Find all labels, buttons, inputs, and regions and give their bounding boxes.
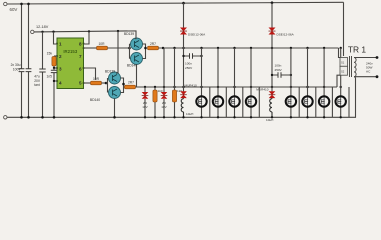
wire 10R to bases lower [102, 82, 107, 84]
wire bulk cap column 1 [21, 4, 23, 117]
terminal 12-18V input [31, 30, 34, 33]
svg-text:S1: S1 [341, 61, 345, 65]
winding secondary [354, 58, 356, 77]
resistor R4 10R [91, 81, 102, 85]
wire S2 bottom to LO rail [337, 75, 340, 87]
node snubber cap 2 left [271, 74, 273, 76]
wire M7 source extra [331, 87, 333, 117]
node emitter junction [144, 47, 147, 50]
resistor R5 2R7 [125, 85, 136, 89]
transistor M2 drain-source column [217, 48, 219, 117]
wire gate rail LO [136, 86, 338, 88]
svg-text:3: 3 [59, 67, 62, 72]
wire clamp column 1 [183, 3, 185, 99]
wire M4 source extra [258, 87, 260, 117]
resistor R2 10R [97, 46, 108, 50]
svg-text:BD140: BD140 [127, 64, 137, 68]
diode D2 MUR410 [180, 91, 187, 98]
transistor Q1 BD139 [131, 38, 143, 50]
svg-text:BD140: BD140 [90, 98, 100, 102]
resistor R1 15k [53, 56, 55, 68]
wire zener column Z1 [144, 87, 146, 117]
terminal ground [4, 116, 7, 119]
svg-text:5: 5 [79, 81, 82, 86]
wire pin 4 ground drop [54, 73, 57, 118]
terminal 60V input [4, 2, 7, 5]
wire Q3 collector from 12V rail [116, 31, 118, 73]
svg-text:2: 2 [59, 54, 62, 59]
wire 10R to bases [108, 47, 130, 49]
wire zener column Z2 from HO rail [163, 48, 165, 117]
svg-text:4: 4 [59, 81, 62, 86]
transistor Q4 BD140 [109, 87, 121, 99]
wire base bar Q1 Q2 [130, 44, 132, 59]
winding S1 [340, 58, 348, 67]
transistor M6 drain-source column [307, 48, 309, 117]
diode Z1 ZD 10V [142, 92, 149, 99]
transistor M4 can [246, 96, 256, 106]
node RT-CT junction [53, 67, 55, 69]
svg-text:tant: tant [34, 83, 40, 87]
svg-text:AC: AC [366, 70, 371, 74]
diode Z2 ZD 10V [161, 92, 168, 99]
capacitor C6 100n 250V snubber [272, 74, 291, 76]
node pin4 junction [53, 80, 55, 82]
wire HO rail to S1 top [339, 48, 341, 58]
wire Q1 collector from 12V rail [135, 38, 137, 40]
wire M2 source extra [225, 87, 227, 117]
capacitor C5 100n 250V snubber [184, 55, 202, 57]
core [350, 56, 352, 77]
transistor M1 drain-source column [201, 48, 203, 117]
junction dots 12V rail [41, 30, 119, 33]
svg-text:S2: S2 [341, 69, 345, 73]
wire M5 source extra [298, 87, 300, 117]
svg-text:15k: 15k [47, 52, 53, 56]
svg-text:DSEI12-06A: DSEI12-06A [277, 32, 295, 36]
svg-text:1: 1 [59, 42, 62, 47]
diode D3 DSEI12-06A [269, 28, 276, 35]
svg-text:7: 7 [79, 54, 82, 59]
resistor R7 1k0 [172, 90, 176, 102]
wire bulk cap column 2 [28, 4, 30, 117]
transistor M1 can [196, 96, 206, 106]
wire emitters Q3 Q4 join [121, 78, 124, 93]
wire pin 2 stub [54, 55, 57, 57]
svg-text:6: 6 [79, 67, 82, 72]
wire emitter to 2R7 lower [124, 86, 125, 88]
transistor Q2 BD140 [131, 53, 143, 65]
svg-text:8: 8 [79, 42, 82, 47]
junction dots HO rail [162, 47, 342, 49]
svg-text:250V: 250V [275, 68, 283, 72]
wire pin 1 to 12V rail [54, 32, 58, 44]
wire 12V rail [34, 31, 136, 39]
wire pin 6 VS [84, 68, 96, 80]
inductor L1 10uH [181, 99, 183, 118]
terminal secondary bottom [376, 75, 379, 78]
svg-text:250V: 250V [185, 66, 193, 70]
svg-text:BD139: BD139 [105, 69, 115, 73]
svg-text:MUR410: MUR410 [185, 83, 197, 87]
wire ground bus [7, 78, 356, 118]
wire Q4 collector to ground [114, 99, 116, 118]
transistor M4 drain-source column [250, 48, 252, 117]
transistor M5 drain-source column [290, 48, 292, 117]
resistor R3 2R7 [148, 46, 159, 50]
svg-text:TR 1: TR 1 [348, 44, 366, 54]
resistor R6 1k0 [153, 90, 157, 102]
node base junction Q1 Q2 [128, 47, 131, 50]
transistor M8 can [336, 96, 346, 106]
junction dots ground bus [20, 116, 342, 119]
svg-text:DSEI12-06A: DSEI12-06A [188, 32, 206, 36]
node emitter junction lower [122, 83, 125, 86]
transistor M3 can [229, 96, 239, 106]
svg-text:100V: 100V [13, 67, 22, 71]
wire pin 3 stub [54, 67, 57, 69]
svg-text:10V: 10V [142, 105, 148, 109]
wire resistor column R7 from HO rail [174, 48, 176, 117]
diode D4 MUR410 [269, 91, 276, 98]
node snubber cap right [200, 55, 202, 57]
wire pin 8 bootstrap stub [84, 31, 90, 44]
transistor M6 can [302, 96, 312, 106]
op-amp U1 IR2153 body [57, 38, 84, 89]
svg-text:10uH: 10uH [266, 118, 273, 122]
wire M3 source extra [242, 87, 244, 117]
wire 60V bus drop to primary [343, 2, 345, 56]
capacitor C4 CT 1n5 [53, 68, 55, 80]
svg-text:2R7: 2R7 [150, 42, 156, 46]
svg-text:60V: 60V [10, 7, 18, 12]
wire clamp column 2 [271, 3, 273, 99]
junction dots top bus [20, 1, 273, 5]
wire secondary top lead [354, 57, 377, 59]
svg-text:10R: 10R [93, 77, 100, 81]
transistor M7 drain-source column [323, 48, 325, 117]
inductor L2 10uH [270, 99, 272, 118]
wire pin 5 to 10R [84, 82, 91, 84]
capacitor bulk C1 plates [19, 69, 25, 72]
svg-text:1n5: 1n5 [46, 75, 52, 79]
svg-text:10V: 10V [161, 105, 167, 109]
wire pin 7 to 10R [84, 47, 97, 49]
transistor M7 can [319, 96, 329, 106]
transistor M5 can [286, 96, 296, 106]
wire top 60V bus [7, 2, 344, 4]
transistor M2 can [213, 96, 223, 106]
transistor M8 drain-source column [340, 48, 342, 117]
svg-text:12-18V: 12-18V [36, 25, 49, 29]
capacitor bulk C2 plates [26, 69, 32, 72]
wire secondary bottom lead [354, 76, 377, 79]
pin number labels U1 [59, 42, 82, 86]
diode D1 DSEI12-06A [180, 28, 187, 35]
svg-text:10uH: 10uH [186, 112, 193, 116]
svg-text:BD139: BD139 [124, 32, 134, 36]
pin nubs U1 [56, 43, 84, 84]
wire M8 source extra [348, 87, 350, 117]
wire emitters Q1 Q2 join [143, 44, 146, 59]
capacitor C3 47u tant column [42, 32, 44, 118]
transistor Q3 BD139 [109, 72, 121, 84]
svg-text:2R7: 2R7 [128, 81, 134, 85]
svg-text:IR2153: IR2153 [63, 49, 77, 54]
winding S2 [340, 66, 348, 75]
terminal secondary top [376, 56, 379, 59]
wire M1 source extra [209, 87, 211, 117]
node snubber cap 2 right [290, 74, 292, 76]
wire base bar Q3 Q4 [106, 78, 108, 93]
svg-text:10R: 10R [98, 42, 105, 46]
node base junction Q3 Q4 [105, 82, 108, 85]
wire Q2 collector to lower rail [136, 65, 138, 88]
wire M6 source extra [315, 87, 317, 117]
wire resistor column R6 [154, 87, 156, 117]
svg-text:MUR410: MUR410 [256, 87, 268, 91]
wire gate rail HO [159, 47, 339, 49]
junction dots LO rail [144, 86, 342, 88]
node snubber cap left [182, 55, 184, 57]
transistor M3 drain-source column [234, 48, 236, 117]
transformer TR1 [337, 2, 378, 87]
